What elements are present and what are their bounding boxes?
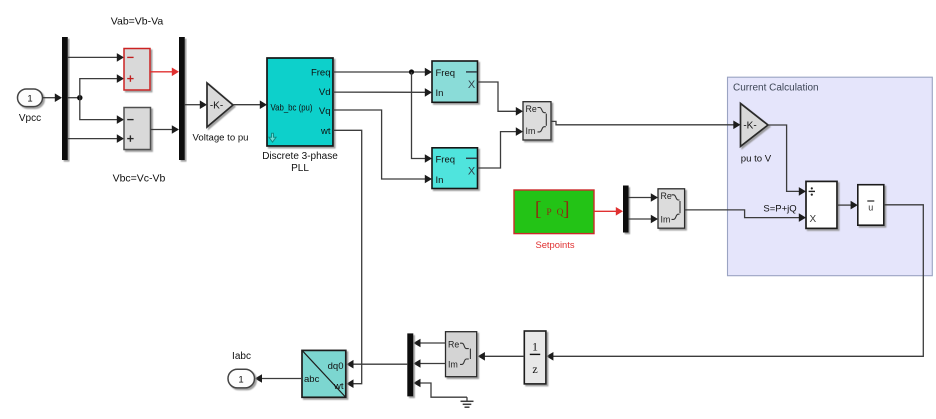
- svg-text:dq0: dq0: [328, 361, 344, 372]
- junction dot Freq branch: [409, 69, 414, 74]
- label Vpcc: [19, 113, 41, 124]
- label pu to V: [741, 154, 772, 165]
- wire ReIm3 Re to mux4: [413, 339, 445, 348]
- real-imag to complex block ReIm2: [658, 189, 685, 228]
- svg-text:Freq: Freq: [436, 154, 456, 165]
- svg-text:1: 1: [27, 93, 32, 104]
- complex to real-imag block ReIm3: [446, 332, 477, 377]
- demux bar 3: [623, 186, 629, 233]
- junction dot node Vb: [77, 95, 82, 100]
- wire demux3 to ReIm2 Re: [629, 193, 658, 202]
- subsystem area Current Calculation: [728, 77, 933, 276]
- wire Mean1 to ReIm1 Re: [478, 82, 524, 116]
- svg-text:Iabc: Iabc: [232, 351, 251, 362]
- wire gain to PLL input: [233, 100, 267, 109]
- wire PLL Freq to Mean1: [333, 68, 432, 77]
- demux bar 1: [62, 37, 68, 160]
- wire junction to Sum1 plus input: [80, 74, 124, 97]
- svg-text:abc: abc: [304, 374, 320, 385]
- wire demux3 to ReIm2 Im: [629, 215, 658, 224]
- wire demux through to junction: [68, 97, 80, 99]
- label Iabc: [232, 351, 251, 362]
- svg-text:wt: wt: [333, 381, 344, 392]
- svg-text:PLL: PLL: [291, 163, 309, 174]
- real-imag to complex block ReIm1: [523, 102, 551, 140]
- gain block -K- Voltage to pu: [207, 83, 233, 127]
- wire conj output down to unit delay (feedback): [546, 205, 923, 361]
- ground symbol: [461, 397, 474, 407]
- wire demux to Sum1 minus input: [68, 53, 124, 62]
- svg-text:Freq: Freq: [436, 68, 456, 79]
- wire mux4 to abc block dq0 input: [346, 360, 407, 369]
- svg-text:Vab_bc (pu): Vab_bc (pu): [271, 103, 313, 113]
- wire junction to Sum2 minus input: [80, 98, 124, 124]
- wire Mean2 to ReIm1 Im: [478, 127, 524, 168]
- svg-text:Freq: Freq: [311, 68, 331, 79]
- svg-text:Discrete 3-phase: Discrete 3-phase: [262, 151, 338, 162]
- wire divide to conj block: [837, 201, 858, 210]
- svg-text:-K-: -K-: [743, 121, 756, 132]
- svg-text:X: X: [468, 166, 476, 178]
- divide block (complex divide): [806, 181, 837, 228]
- svg-text:Im: Im: [526, 126, 536, 136]
- label S=P+jQ: [763, 203, 796, 214]
- svg-text:1: 1: [238, 374, 243, 385]
- svg-text:Im: Im: [448, 360, 458, 370]
- wire Setpoints to demux (red): [594, 207, 623, 216]
- svg-text:Re: Re: [661, 191, 672, 201]
- svg-text:[: [: [535, 198, 542, 220]
- label Setpoints: [535, 239, 574, 250]
- svg-text:X: X: [468, 79, 476, 91]
- block Discrete 3-phase PLL: [267, 58, 333, 146]
- wire gain to divide block: [768, 125, 806, 196]
- svg-text:S=P+jQ: S=P+jQ: [763, 203, 796, 214]
- svg-text:X: X: [809, 214, 816, 225]
- svg-text:Current Calculation: Current Calculation: [733, 83, 819, 94]
- wire Sum2 to mux: [151, 125, 180, 134]
- svg-text:Re: Re: [448, 339, 459, 349]
- wire mux to Voltage-to-pu gain: [185, 100, 207, 109]
- svg-text:Vab=Vb-Va: Vab=Vb-Va: [111, 16, 164, 28]
- wire demux to Sum2 plus input: [68, 134, 124, 143]
- sum block Sum2 (Vbc=Vc-Vb): [124, 108, 151, 150]
- svg-text:z: z: [532, 362, 537, 376]
- dq0 to abc transform block: [302, 350, 346, 397]
- svg-text:-K-: -K-: [210, 101, 223, 112]
- wire PLL wt to abc block (long vertical): [333, 130, 362, 388]
- svg-text:Vd: Vd: [319, 87, 331, 98]
- input port 1 Vpcc: [18, 89, 43, 107]
- svg-text:Re: Re: [526, 104, 537, 114]
- wire ReIm3 Im to mux4: [413, 359, 445, 368]
- svg-text:Im: Im: [661, 215, 671, 225]
- svg-text:Vq: Vq: [319, 106, 331, 117]
- wire ReIm2 to divide X input (S=P+jQ): [685, 210, 806, 222]
- sum block Sum1 (red, Vab=Vb-Va): [124, 49, 150, 91]
- wire Vpcc to demux: [43, 93, 63, 102]
- wire PLL Vq to Mean2 In: [333, 110, 432, 183]
- mean block 2 (Freq In Xbar): [432, 148, 478, 189]
- gain block -K- pu to V: [741, 103, 769, 146]
- label Discrete 3-phase PLL: [262, 151, 338, 174]
- svg-text:In: In: [436, 175, 444, 186]
- wire ReIm1 to pu-to-V gain (long): [551, 121, 741, 130]
- svg-text:wt: wt: [320, 126, 331, 137]
- wire unit delay to complex-to-real-imag: [478, 352, 525, 361]
- svg-text:Setpoints: Setpoints: [535, 239, 574, 250]
- label Vab=Vb-Va: [111, 16, 164, 28]
- math function block conj (u bar): [858, 185, 884, 226]
- label Vbc=Vc-Vb: [113, 173, 166, 185]
- constant block Setpoints [P Q]: [514, 190, 594, 234]
- label Voltage to pu: [192, 133, 248, 144]
- svg-text:In: In: [436, 88, 444, 99]
- mux bar 4: [407, 333, 413, 396]
- svg-text:]: ]: [563, 198, 570, 220]
- svg-text:Vbc=Vc-Vb: Vbc=Vc-Vb: [113, 173, 166, 185]
- wire PLL Vd to Mean1 In: [333, 88, 432, 97]
- wire Sum1 to mux (red signal): [150, 68, 179, 77]
- unit delay block 1/z: [524, 331, 546, 384]
- svg-text:u: u: [868, 203, 873, 213]
- wire Freq branch to Mean2: [412, 72, 433, 163]
- wire ground to mux4: [413, 379, 467, 398]
- output port 1 Iabc: [228, 369, 255, 388]
- wire abc block to output port Iabc: [255, 374, 302, 383]
- svg-text:pu to V: pu to V: [741, 154, 772, 165]
- svg-text:Voltage to pu: Voltage to pu: [192, 133, 248, 144]
- mux bar 2: [179, 37, 185, 160]
- svg-text:1: 1: [532, 340, 538, 354]
- svg-text:P: P: [546, 208, 551, 218]
- mean block 1 (Freq In Xbar): [432, 61, 478, 102]
- svg-text:Vpcc: Vpcc: [19, 113, 41, 124]
